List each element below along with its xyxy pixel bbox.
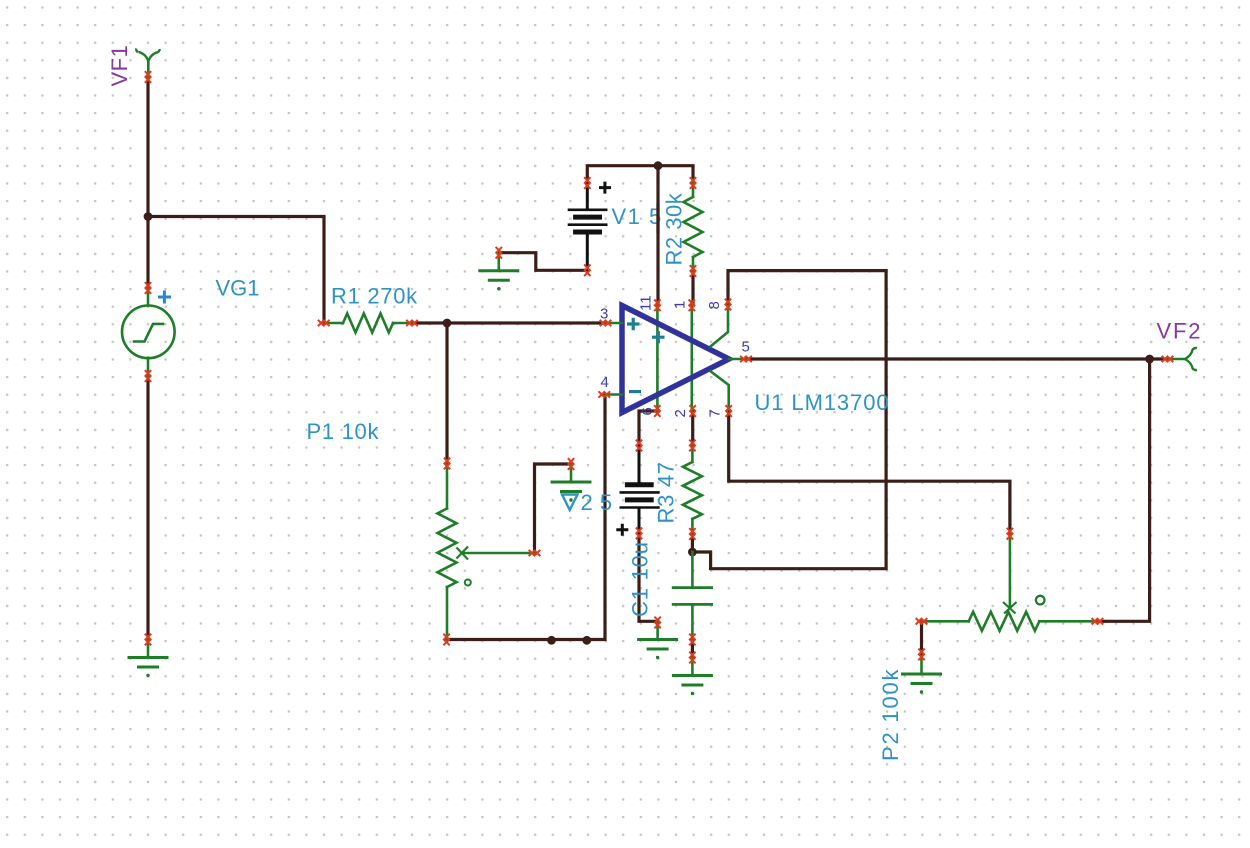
wire V1 top rail to R2 top xyxy=(587,166,693,183)
P1 top terminal x xyxy=(444,458,450,470)
label VF2 xyxy=(1157,318,1203,343)
GND1 terminal x xyxy=(145,634,151,646)
svg-text:VG1: VG1 xyxy=(216,276,260,301)
op-amp U1 input lead pin 3 xyxy=(606,322,623,325)
pin 4 x xyxy=(599,391,611,397)
pin label 4 xyxy=(601,374,609,391)
junction dot on P1-pin4 wire (right) xyxy=(582,636,591,645)
GND5 terminal x xyxy=(689,652,695,664)
ground GND6 (below P2) xyxy=(903,656,941,694)
GND2 terminal x xyxy=(496,247,502,259)
R2 top terminal x xyxy=(690,177,696,189)
R1 right terminal x xyxy=(406,320,418,326)
svg-text:3: 3 xyxy=(600,305,608,322)
VF2 terminal x xyxy=(1162,356,1174,362)
pin label 11 xyxy=(638,295,655,311)
voltage generator VG1 xyxy=(122,288,175,376)
ground GND4 (below V2) xyxy=(639,622,677,660)
GND4 terminal x xyxy=(654,617,660,629)
node D junction dot xyxy=(688,548,697,557)
svg-text:R3 47: R3 47 xyxy=(654,461,679,523)
wire node C down to op-amp pin 11 xyxy=(656,166,659,306)
op-amp U1 lead pin 7 xyxy=(710,371,729,412)
resistor R1 xyxy=(324,314,412,333)
P1 wiper terminal x xyxy=(529,550,541,556)
pin 11 x xyxy=(654,300,660,312)
label P1 10k xyxy=(307,419,380,444)
pin label 5 xyxy=(742,338,750,355)
label V1 5 xyxy=(612,204,663,232)
resistor R3 xyxy=(683,446,702,535)
label C1 10u xyxy=(628,541,653,617)
pin label 3 xyxy=(600,305,608,322)
wire V1 bottom to ground GND2 xyxy=(499,253,588,271)
R3 bottom terminal x xyxy=(689,528,695,540)
ground GND3 (near V2) xyxy=(552,464,590,502)
VG1 plus sign xyxy=(158,291,171,304)
VG1 top terminal x xyxy=(145,282,151,294)
potentiometer P1 xyxy=(438,464,535,640)
V1 plus sign xyxy=(599,182,611,194)
pin label 6 xyxy=(639,407,656,415)
svg-text:P1 10k: P1 10k xyxy=(307,419,380,444)
pin label 1 xyxy=(672,301,689,309)
svg-text:V1 5: V1 5 xyxy=(612,204,663,229)
op-amp U1 lead pin 8 xyxy=(710,305,729,348)
svg-text:11: 11 xyxy=(638,295,655,311)
V2 top terminal x xyxy=(636,440,642,452)
wire op-amp pin 7 to P2 wiper xyxy=(729,411,1010,534)
wire V2 bottom to ground GND4 xyxy=(639,533,658,622)
pin 3 x xyxy=(600,320,612,326)
svg-text:R1 270k: R1 270k xyxy=(331,284,418,309)
ground GND5 (below C1) xyxy=(673,658,711,696)
pin 1 x xyxy=(689,300,695,312)
svg-text:R2 30k: R2 30k xyxy=(662,192,687,265)
label VF1 xyxy=(107,45,132,87)
wire junction A to VG1 top xyxy=(146,217,149,289)
svg-text:VF2: VF2 xyxy=(1157,318,1203,343)
label V2 5 (inverted-V glyph) xyxy=(562,490,613,515)
P2 right terminal x xyxy=(1092,618,1104,624)
node E junction dot at output xyxy=(1145,355,1154,364)
wire R1 right to op-amp pin 3 xyxy=(412,321,606,324)
svg-text:8: 8 xyxy=(706,301,723,309)
svg-text:5: 5 xyxy=(742,338,750,355)
wire VF1 to junction A xyxy=(146,77,149,217)
wire VG1 bottom to ground xyxy=(146,376,149,640)
node A junction dot xyxy=(144,212,153,221)
wire op-amp pin 6 to V2 top xyxy=(639,411,657,446)
op-amp U1 bias line pin 1-2 xyxy=(690,305,693,411)
wire P1 wiper to ground GND3 xyxy=(535,464,572,553)
junction dot on P1-pin4 wire (left) xyxy=(547,636,556,645)
svg-text:2: 2 xyxy=(672,409,689,417)
V1 bottom terminal x xyxy=(584,265,590,277)
VG1 bottom terminal x xyxy=(145,370,151,382)
label U1 LM13700 xyxy=(755,390,890,415)
V2 plus sign xyxy=(616,524,628,536)
potentiometer P2 xyxy=(922,534,1098,631)
op-amp U1 triangle xyxy=(622,306,729,413)
R1 left terminal x xyxy=(318,320,330,326)
P2 wiper terminal x xyxy=(1007,528,1013,540)
wire R2 bottom to op-amp pin 1 xyxy=(691,271,694,305)
R2 bottom terminal x xyxy=(690,265,696,277)
node B junction dot xyxy=(443,319,452,328)
battery V2 xyxy=(621,446,659,534)
wire junction A to R1 left xyxy=(148,217,324,324)
wire P1 bottom to op-amp pin 4 xyxy=(447,395,606,640)
svg-text:1: 1 xyxy=(672,301,689,309)
op-amp U1 bias line pin 11-6 xyxy=(656,305,659,411)
pin 5 x xyxy=(740,356,752,362)
svg-text:C1 10u: C1 10u xyxy=(628,541,653,617)
svg-text:2 5: 2 5 xyxy=(581,490,613,515)
op-amp U1 minus mark (pin4) xyxy=(629,390,641,393)
V2 bottom terminal x xyxy=(636,528,642,540)
pin 2 x xyxy=(690,405,696,417)
label R2 30k xyxy=(662,192,687,265)
P1 bottom terminal x xyxy=(443,634,449,646)
pin 7 x xyxy=(726,405,732,417)
wire op-amp pin 2 to R3 top xyxy=(691,411,694,446)
GND6 terminal x xyxy=(918,649,924,661)
label R3 47 xyxy=(654,461,679,523)
voltage probe VF2 xyxy=(1168,348,1198,370)
op-amp U1 plus mark (bias) xyxy=(652,331,665,343)
GND3 terminal x xyxy=(568,458,574,470)
op-amp U1 input lead pin 4 xyxy=(604,393,622,396)
wire node D loop to op-amp pin 8 xyxy=(692,271,886,569)
svg-text:VF1: VF1 xyxy=(107,45,132,87)
wire C1 bottom to ground GND5 xyxy=(691,640,694,658)
ground GND2 (below V1) xyxy=(480,253,518,291)
pin label 8 xyxy=(706,301,723,309)
svg-text:4: 4 xyxy=(601,374,609,391)
VF1 terminal x xyxy=(145,71,151,83)
V1 top terminal x xyxy=(584,177,590,189)
wire R3 bottom to node D xyxy=(691,534,694,552)
ground GND1 (below VG1) xyxy=(129,640,167,678)
capacitor C1 xyxy=(673,552,711,640)
resistor R2 xyxy=(684,183,703,271)
svg-text:P2 100k: P2 100k xyxy=(878,668,903,761)
label R1 270k xyxy=(331,284,418,309)
svg-text:7: 7 xyxy=(707,409,724,417)
pin label 2 xyxy=(672,409,689,417)
wire P2 left to ground GND6 xyxy=(920,621,923,654)
pin 8 x xyxy=(725,299,731,311)
svg-text:6: 6 xyxy=(639,407,656,415)
pin label 7 xyxy=(707,409,724,417)
battery V1 xyxy=(569,183,606,270)
voltage probe VF1 xyxy=(136,49,160,78)
wire node E down to P2 right xyxy=(1097,359,1149,621)
wire junction B down to P1 top xyxy=(445,323,448,464)
label P2 100k xyxy=(878,668,903,761)
op-amp U1 output lead pin 5 xyxy=(729,358,746,361)
P2 left terminal x xyxy=(916,618,928,624)
wire op-amp pin 5 output to VF2 xyxy=(746,357,1168,360)
pin 6 x xyxy=(654,405,660,417)
R3 top terminal x xyxy=(689,440,695,452)
node C junction dot on top rail xyxy=(654,161,663,170)
svg-text:U1 LM13700: U1 LM13700 xyxy=(755,390,890,415)
C1 bottom terminal x xyxy=(689,634,695,646)
label VG1 xyxy=(216,276,260,301)
op-amp U1 plus mark (pin3) xyxy=(627,318,640,330)
